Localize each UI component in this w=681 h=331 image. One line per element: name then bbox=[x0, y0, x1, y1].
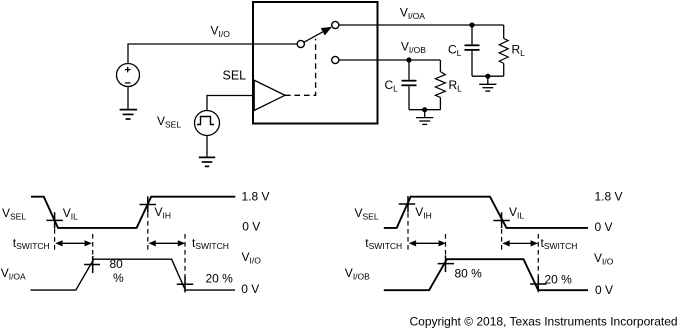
svg-text:20 %: 20 % bbox=[545, 273, 573, 287]
svg-text:20 %: 20 % bbox=[206, 272, 234, 286]
svg-text:0 V: 0 V bbox=[241, 282, 259, 296]
svg-text:Copyright © 2018, Texas Instru: Copyright © 2018, Texas Instruments Inco… bbox=[410, 315, 678, 329]
svg-text:1.8 V: 1.8 V bbox=[595, 189, 623, 203]
svg-text:SEL: SEL bbox=[223, 69, 247, 83]
svg-text:0 V: 0 V bbox=[242, 220, 260, 234]
svg-text:%: % bbox=[113, 271, 124, 285]
svg-text:80: 80 bbox=[110, 257, 124, 271]
svg-text:0 V: 0 V bbox=[595, 220, 613, 234]
svg-text:0 V: 0 V bbox=[595, 283, 613, 297]
svg-text:80 %: 80 % bbox=[455, 266, 483, 280]
svg-text:1.8 V: 1.8 V bbox=[242, 189, 270, 203]
